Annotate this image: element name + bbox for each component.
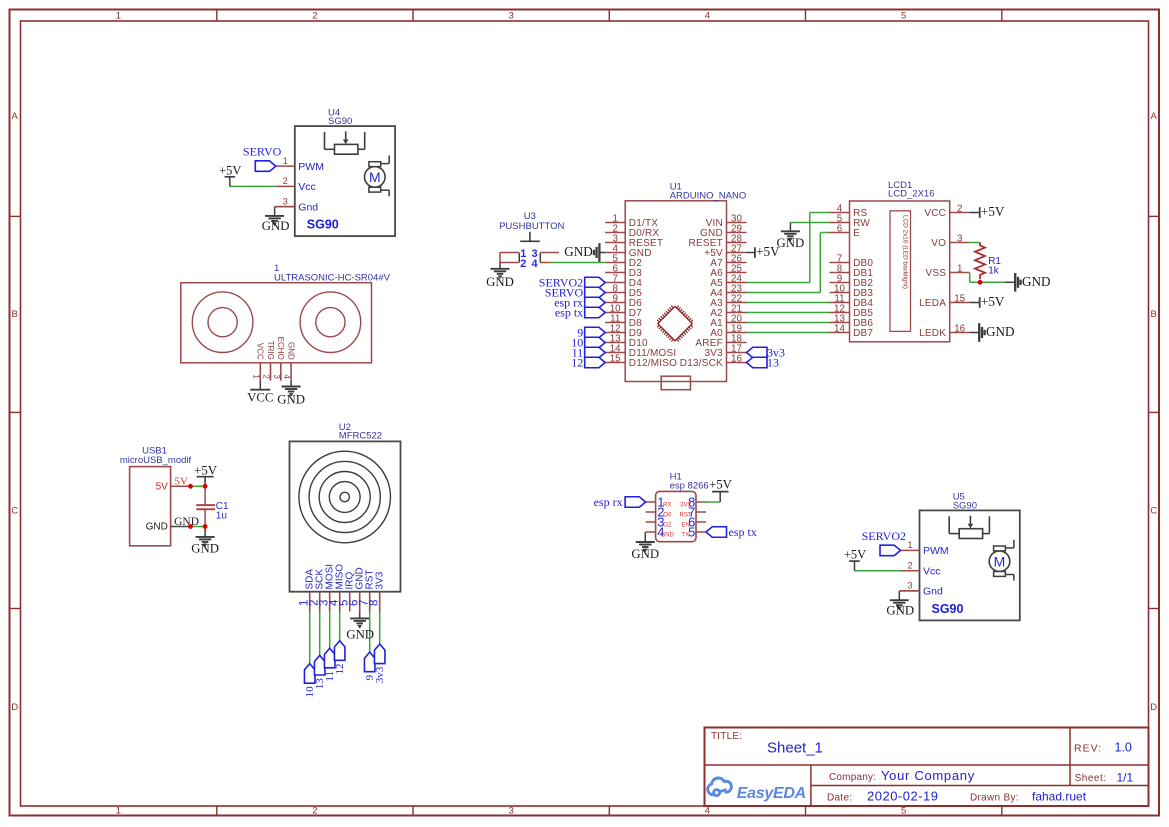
svg-text:VO: VO [931, 238, 946, 249]
svg-text:SG90: SG90 [328, 116, 352, 127]
svg-text:2: 2 [907, 561, 912, 571]
svg-text:REV:: REV: [1074, 743, 1102, 755]
svg-text:15: 15 [954, 293, 965, 304]
svg-text:GND: GND [146, 522, 168, 533]
svg-text:LCD 2x16 (LED backlight): LCD 2x16 (LED backlight) [902, 215, 909, 289]
svg-text:12: 12 [334, 664, 346, 675]
svg-text:esp tx: esp tx [555, 306, 583, 320]
svg-text:5V: 5V [156, 481, 169, 492]
svg-text:+5V: +5V [219, 163, 241, 177]
svg-text:D12/MISO: D12/MISO [629, 358, 677, 369]
svg-text:12: 12 [571, 356, 583, 370]
svg-text:TX: TX [682, 532, 690, 538]
svg-text:Drawn By:: Drawn By: [970, 793, 1019, 804]
svg-text:3: 3 [508, 806, 513, 817]
svg-text:Your Company: Your Company [881, 768, 975, 783]
svg-text:LCD_2X16: LCD_2X16 [888, 189, 934, 200]
svg-text:GND: GND [564, 244, 593, 259]
svg-text:VCC: VCC [924, 208, 946, 219]
svg-text:Company:: Company: [829, 772, 876, 783]
svg-text:4: 4 [705, 806, 710, 817]
svg-text:VSS: VSS [925, 268, 946, 279]
svg-text:Gnd: Gnd [923, 586, 943, 598]
svg-text:2: 2 [312, 806, 317, 817]
svg-text:8: 8 [369, 600, 381, 606]
svg-text:SERVO2: SERVO2 [862, 529, 906, 543]
svg-text:Vcc: Vcc [298, 181, 316, 193]
svg-text:VCC: VCC [256, 343, 265, 360]
svg-text:Date:: Date: [827, 793, 852, 804]
svg-text:SG90: SG90 [932, 602, 964, 616]
svg-text:GND: GND [986, 324, 1015, 339]
svg-text:3v3: 3v3 [374, 666, 386, 683]
svg-text:2: 2 [312, 11, 317, 22]
svg-text:PUSHBUTTON: PUSHBUTTON [499, 221, 564, 232]
svg-text:DB7: DB7 [853, 328, 873, 339]
svg-text:1: 1 [907, 540, 912, 550]
svg-text:C: C [11, 506, 18, 517]
svg-text:2: 2 [520, 258, 526, 270]
svg-text:1: 1 [283, 156, 288, 166]
svg-text:GND: GND [346, 628, 374, 642]
svg-text:2: 2 [262, 374, 271, 379]
svg-text:D13/SCK: D13/SCK [680, 358, 723, 369]
svg-text:2020-02-19: 2020-02-19 [867, 789, 939, 804]
svg-text:1.0: 1.0 [1115, 741, 1132, 755]
svg-text:D: D [11, 702, 18, 713]
svg-text:Gnd: Gnd [298, 201, 318, 213]
svg-text:SG90: SG90 [953, 500, 977, 511]
svg-text:4: 4 [282, 374, 291, 379]
svg-text:A: A [12, 111, 19, 122]
svg-text:SERVO: SERVO [243, 145, 282, 159]
svg-text:GND: GND [661, 532, 675, 538]
svg-text:GND: GND [287, 342, 296, 360]
svg-text:14: 14 [834, 323, 845, 334]
svg-text:E: E [853, 228, 860, 239]
svg-text:13: 13 [767, 356, 779, 370]
svg-text:Vcc: Vcc [923, 566, 941, 578]
svg-text:1/1: 1/1 [1117, 770, 1134, 784]
svg-text:16: 16 [954, 323, 965, 334]
svg-text:+5V: +5V [194, 463, 218, 477]
svg-text:5: 5 [901, 11, 906, 22]
svg-text:3V3: 3V3 [375, 571, 386, 589]
svg-text:5: 5 [901, 806, 906, 817]
svg-text:esp 8266: esp 8266 [670, 481, 709, 492]
svg-text:C: C [1150, 506, 1157, 517]
svg-text:6: 6 [837, 223, 843, 234]
svg-text:GND: GND [1022, 274, 1051, 289]
svg-text:ECHO: ECHO [276, 337, 285, 360]
svg-text:2: 2 [283, 176, 288, 186]
svg-text:3: 3 [508, 11, 513, 22]
svg-text:+5V: +5V [981, 204, 1005, 219]
svg-text:1u: 1u [216, 510, 227, 521]
svg-text:2: 2 [957, 203, 962, 214]
svg-text:4: 4 [532, 258, 539, 270]
svg-text:3: 3 [907, 581, 912, 591]
svg-text:1: 1 [116, 806, 121, 817]
svg-text:1: 1 [116, 11, 121, 22]
svg-text:+5V: +5V [709, 478, 733, 492]
svg-text:3: 3 [283, 196, 288, 206]
svg-text:GND: GND [191, 541, 219, 555]
svg-text:M: M [994, 553, 1006, 569]
svg-text:A: A [1151, 111, 1158, 122]
svg-text:3: 3 [957, 233, 963, 244]
svg-text:esp tx: esp tx [729, 525, 757, 539]
svg-text:MFRC522: MFRC522 [339, 431, 382, 442]
svg-text:16: 16 [731, 353, 742, 364]
svg-text:VCC: VCC [247, 391, 273, 405]
svg-text:microUSB_modif: microUSB_modif [120, 455, 192, 466]
svg-text:5V: 5V [175, 475, 189, 487]
svg-text:1k: 1k [988, 266, 1000, 277]
svg-text:1: 1 [957, 263, 962, 274]
svg-text:GND: GND [262, 219, 290, 233]
svg-text:ULTRASONIC-HC-SR04#V: ULTRASONIC-HC-SR04#V [274, 273, 391, 284]
svg-text:GND: GND [777, 236, 805, 250]
svg-text:GND: GND [886, 603, 914, 617]
svg-text:O2: O2 [663, 522, 672, 528]
svg-text:GND: GND [486, 275, 514, 289]
svg-text:4: 4 [705, 11, 710, 22]
svg-text:TRIG: TRIG [266, 341, 275, 360]
svg-text:1: 1 [251, 374, 260, 379]
svg-text:+5V: +5V [844, 548, 866, 562]
svg-text:GND: GND [277, 393, 305, 407]
svg-text:fahad.ruet: fahad.ruet [1032, 790, 1087, 804]
svg-text:LEDA: LEDA [919, 298, 946, 309]
svg-text:3: 3 [272, 374, 281, 379]
svg-text:O0: O0 [663, 512, 672, 518]
svg-text:SG90: SG90 [307, 218, 339, 232]
svg-text:Sheet_1: Sheet_1 [767, 740, 823, 757]
svg-text:15: 15 [610, 353, 621, 364]
svg-text:ARDUINO_NANO: ARDUINO_NANO [670, 190, 747, 201]
svg-text:esp rx: esp rx [594, 495, 623, 509]
svg-text:D: D [1150, 702, 1157, 713]
svg-text:EasyEDA: EasyEDA [737, 785, 806, 802]
svg-text:GND: GND [631, 547, 659, 561]
svg-text:PWM: PWM [298, 161, 324, 173]
svg-text:B: B [1151, 309, 1157, 320]
svg-text:LEDK: LEDK [919, 328, 946, 339]
svg-text:TITLE:: TITLE: [711, 731, 742, 742]
svg-text:Sheet:: Sheet: [1075, 773, 1107, 784]
svg-text:PWM: PWM [923, 545, 949, 557]
svg-text:+5V: +5V [981, 294, 1005, 309]
svg-text:M: M [369, 169, 381, 185]
svg-text:B: B [12, 309, 18, 320]
